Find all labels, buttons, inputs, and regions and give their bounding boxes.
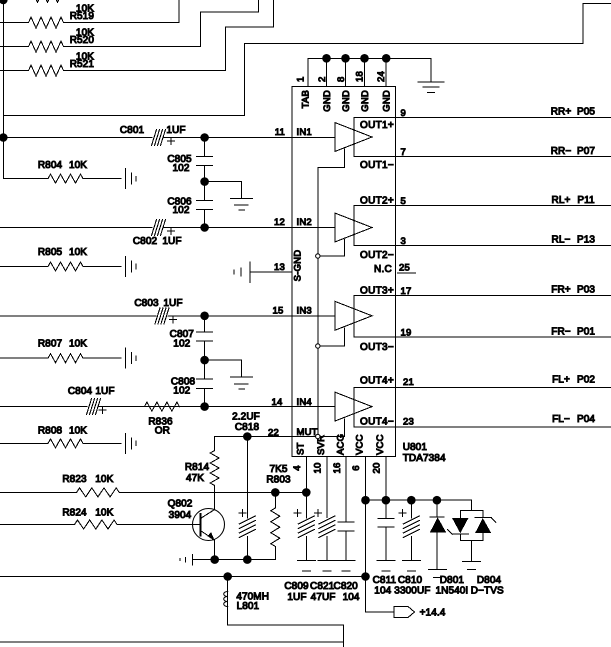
svg-text:L801: L801 <box>237 601 260 612</box>
output box ch1 <box>354 117 396 156</box>
junction dot C805/C806 mid <box>200 177 209 186</box>
pin VCC stub (6) <box>365 456 367 612</box>
svg-text:R814: R814 <box>185 462 210 473</box>
inductor L801 470MH <box>224 577 344 647</box>
wire S-GND pin 13 <box>250 271 292 273</box>
junction dot R803 top <box>271 488 280 497</box>
svg-text:OUT1+: OUT1+ <box>360 120 394 131</box>
open circle node ch3 <box>316 344 320 348</box>
resistor R519 <box>0 0 179 28</box>
junction dot top-left <box>0 0 8 4</box>
ground (earth, left-facing) at Q802 emitter <box>180 554 193 565</box>
svg-text:D−TVS: D−TVS <box>471 585 504 596</box>
wire OUT4+ / pin 21 <box>396 386 611 388</box>
junction dot ST bottom <box>302 488 311 497</box>
svg-text:RR−: RR− <box>551 146 572 157</box>
wire IN4 line <box>0 406 335 408</box>
svg-text:OUT2+: OUT2+ <box>360 196 394 207</box>
svg-text:1UF: 1UF <box>162 236 181 247</box>
junction dot VCC20 <box>382 496 391 505</box>
svg-text:3904: 3904 <box>169 510 192 521</box>
ground (earth, down) for C805/C806 <box>230 199 252 211</box>
svg-text:FL+: FL+ <box>552 375 570 386</box>
internal bus wire <box>317 168 319 435</box>
svg-text:+14.4: +14.4 <box>420 608 446 619</box>
resistor R520 <box>0 0 258 52</box>
wire OUT2+ / pin 5 <box>396 205 611 207</box>
wire OUT2- / pin 3 <box>396 244 611 246</box>
junction dot D801 <box>433 496 442 505</box>
svg-text:23: 23 <box>403 417 414 428</box>
svg-text:102: 102 <box>173 385 190 396</box>
svg-text:4: 4 <box>292 465 303 470</box>
capacitor C818 (vertical, polarized) <box>239 441 255 560</box>
op-amp U801 body <box>292 87 395 457</box>
ground for C810 <box>402 561 420 571</box>
svg-text:2: 2 <box>317 77 328 82</box>
ground (earth, right-facing) for R805 <box>126 257 137 277</box>
svg-text:OUT4−: OUT4− <box>360 417 394 428</box>
wire OUT3- / pin 19 <box>396 336 611 338</box>
svg-text:ACG: ACG <box>335 434 346 455</box>
svg-text:7: 7 <box>401 147 406 158</box>
svg-text:10K: 10K <box>95 508 113 519</box>
junction dot IN3/C807 <box>200 312 209 321</box>
junction dot MUT/C818 <box>243 432 252 441</box>
junction dot C810 <box>407 496 416 505</box>
svg-text:OUT1−: OUT1− <box>360 160 394 171</box>
svg-text:RL+: RL+ <box>552 195 571 206</box>
op-amp triangle 4 <box>335 392 372 421</box>
pin VCC stub (20) <box>385 456 387 518</box>
svg-text:102: 102 <box>173 163 190 174</box>
svg-text:14: 14 <box>272 397 283 408</box>
diode D801 1N5401 <box>430 500 446 569</box>
svg-text:20: 20 <box>372 463 383 474</box>
svg-text:21: 21 <box>403 377 414 388</box>
wire MUT line <box>215 437 320 451</box>
output box ch4 <box>354 387 396 427</box>
svg-text:P01: P01 <box>577 326 595 337</box>
svg-text:10K: 10K <box>69 247 87 258</box>
resistor R836 <box>144 402 179 437</box>
svg-text:R805: R805 <box>38 247 63 258</box>
open circle node ch2/S-GND <box>316 254 320 258</box>
svg-text:C810: C810 <box>398 575 423 586</box>
resistor R521 <box>0 0 273 76</box>
svg-text:24: 24 <box>376 71 387 82</box>
svg-text:D804: D804 <box>477 575 502 586</box>
wire OUT3+ / pin 17 <box>396 294 611 296</box>
svg-text:104: 104 <box>343 592 360 603</box>
svg-text:VCC: VCC <box>355 434 366 455</box>
pin SVR stub <box>326 456 328 517</box>
svg-text:104: 104 <box>374 585 391 596</box>
svg-text:IN2: IN2 <box>297 217 312 228</box>
svg-text:10: 10 <box>313 463 324 474</box>
svg-text:RR+: RR+ <box>551 107 572 118</box>
feedback wire ch2 <box>320 240 344 257</box>
svg-text:VCC: VCC <box>375 434 386 455</box>
svg-text:C801: C801 <box>120 125 145 136</box>
svg-text:GND: GND <box>382 90 393 112</box>
ground for D804 <box>463 562 481 570</box>
resistor R807 <box>0 338 121 362</box>
capacitor C820 104 (on ACG pin) <box>338 522 354 560</box>
svg-text:11: 11 <box>275 127 285 138</box>
wire mid to ground <box>205 182 242 199</box>
capacitor C809 1UF (on ST pin) <box>294 492 314 560</box>
svg-text:15: 15 <box>273 306 284 317</box>
ground for C820 <box>337 561 355 571</box>
svg-text:102: 102 <box>173 339 190 350</box>
resistor R823 10K <box>0 474 306 497</box>
svg-text:P05: P05 <box>577 107 595 118</box>
output box ch3 <box>354 295 396 337</box>
resistor R803 7K5 (vertical) <box>266 464 291 560</box>
svg-text:IN3: IN3 <box>297 306 312 317</box>
feedback wire ch3 <box>320 328 344 346</box>
op-amp triangle 2 <box>335 213 372 242</box>
op-amp triangle 1 <box>335 123 372 152</box>
svg-text:D801: D801 <box>440 575 465 586</box>
svg-text:C820: C820 <box>334 581 359 592</box>
junction dot C818 bottom <box>243 555 252 564</box>
svg-text:1UF: 1UF <box>287 592 306 603</box>
svg-text:7K5: 7K5 <box>269 464 287 475</box>
open circle node MUT <box>316 434 320 438</box>
svg-text:RL−: RL− <box>552 235 571 246</box>
svg-text:1UF: 1UF <box>163 298 182 309</box>
resistor R805 <box>0 247 121 271</box>
svg-text:TDA7384: TDA7384 <box>403 453 446 464</box>
svg-text:13: 13 <box>274 262 285 273</box>
wire: bus to top-right staircase <box>3 4 611 116</box>
svg-text:IN4: IN4 <box>297 397 312 408</box>
wire OUT1+ / pin 9 <box>396 116 611 118</box>
svg-text:18: 18 <box>355 71 366 82</box>
svg-text:1N540I: 1N540I <box>435 585 468 596</box>
svg-text:GND: GND <box>341 90 352 112</box>
svg-text:U801: U801 <box>403 442 428 453</box>
svg-text:47K: 47K <box>186 473 204 484</box>
svg-text:FR−: FR− <box>551 326 571 337</box>
svg-text:P02: P02 <box>577 375 595 386</box>
svg-text:C811: C811 <box>373 575 397 586</box>
power flag +14.4 <box>366 607 446 619</box>
wire VCC bus <box>366 500 472 510</box>
ground for D801 <box>428 570 446 578</box>
op-amp triangle 3 <box>335 301 372 330</box>
wire mid to ground <box>205 360 242 377</box>
junction dot IN2/C806 <box>200 223 209 232</box>
svg-text:FL−: FL− <box>552 414 570 425</box>
pin ACG stub <box>345 456 347 522</box>
capacitor C803 1UF <box>134 298 182 324</box>
capacitor C808 102 <box>171 364 213 406</box>
svg-text:C803: C803 <box>134 298 159 309</box>
svg-text:9: 9 <box>401 108 406 119</box>
node TOPBUS: vertical bus at left <box>2 0 4 179</box>
svg-text:C804: C804 <box>68 386 93 397</box>
capacitor C805 102 <box>167 142 212 178</box>
svg-text:OR: OR <box>155 426 170 437</box>
svg-text:R519: R519 <box>70 11 95 22</box>
svg-text:C821: C821 <box>310 581 335 592</box>
wire OUT1- / pin 7 <box>396 156 611 158</box>
svg-text:2.2UF: 2.2UF <box>232 412 260 423</box>
junction dot VCC6 <box>361 496 370 505</box>
ground for C821 <box>318 561 336 571</box>
capacitor C804 1UF <box>68 386 115 415</box>
svg-text:ST: ST <box>296 442 307 455</box>
svg-text:47UF: 47UF <box>311 592 336 603</box>
capacitor C811 104 (on VCC20) <box>378 518 394 560</box>
resistor R824 10K <box>0 508 200 529</box>
svg-text:S-GND: S-GND <box>293 250 304 282</box>
junction dot IN1/C805 <box>200 133 209 142</box>
resistor R518 (partial, top edge) <box>3 0 179 3</box>
junction dot pin18 <box>360 54 369 63</box>
svg-text:25: 25 <box>399 263 410 274</box>
svg-text:17: 17 <box>401 286 412 297</box>
svg-text:16: 16 <box>332 463 343 474</box>
resistor R808 <box>0 425 121 448</box>
svg-text:FR+: FR+ <box>551 285 571 296</box>
ground (earth, right-facing) for R807 <box>126 348 137 368</box>
svg-text:C809: C809 <box>284 581 309 592</box>
svg-text:OUT3−: OUT3− <box>360 342 394 353</box>
svg-text:P07: P07 <box>577 146 595 157</box>
svg-text:P03: P03 <box>577 285 595 296</box>
svg-text:R520: R520 <box>70 35 95 46</box>
svg-text:OUT3+: OUT3+ <box>360 285 394 296</box>
feedback wire ch4 <box>320 419 344 437</box>
svg-text:1UF: 1UF <box>166 125 185 136</box>
junction dot bus/IN1 <box>0 133 8 142</box>
wire emitter ground rail <box>193 559 276 561</box>
capacitor C810 3300UF <box>399 500 419 560</box>
svg-text:R824: R824 <box>62 508 87 519</box>
svg-text:12: 12 <box>274 217 285 228</box>
capacitor C821 47UF (on SVR pin) <box>315 510 335 561</box>
svg-text:OUT2−: OUT2− <box>360 250 394 261</box>
pin 18 GND wire <box>364 58 366 86</box>
svg-text:1UF: 1UF <box>95 386 114 397</box>
wire GND bus top <box>308 58 431 86</box>
ground (earth, left-facing) for S-GND pin 13 <box>234 262 250 283</box>
svg-text:R803: R803 <box>266 474 291 485</box>
transistor Q802 3904 <box>168 492 225 559</box>
svg-text:10K: 10K <box>69 160 87 171</box>
svg-text:8: 8 <box>336 77 347 82</box>
output box ch2 <box>354 206 396 246</box>
resistor R804 <box>3 160 121 183</box>
svg-text:OUT4+: OUT4+ <box>360 376 394 387</box>
svg-text:TAB: TAB <box>301 90 312 108</box>
svg-text:P04: P04 <box>577 414 595 425</box>
junction dot bus/L801 <box>223 572 232 581</box>
wire bottom bus to VCC <box>0 576 366 578</box>
pin 2 GND wire <box>326 58 328 86</box>
ground (earth, down) for C807/C808 <box>230 377 252 389</box>
wire bottom edge <box>0 641 343 643</box>
diode D804 D-TVS <box>448 510 496 561</box>
svg-text:Q802: Q802 <box>168 498 193 509</box>
svg-text:6: 6 <box>351 465 362 470</box>
svg-text:10K: 10K <box>69 338 87 349</box>
svg-text:R521: R521 <box>70 59 95 70</box>
ground for C811 <box>377 561 395 571</box>
svg-text:C802: C802 <box>133 236 158 247</box>
pin ST stub <box>305 456 307 492</box>
feedback wire ch1 <box>318 149 345 168</box>
junction dot bus/VCC <box>361 572 370 581</box>
pin 24 GND wire <box>385 58 387 86</box>
junction dot C807/C808 mid <box>200 356 209 365</box>
svg-text:GND: GND <box>360 90 371 112</box>
svg-text:P11: P11 <box>577 195 595 206</box>
resistor R814 47K (vertical) <box>185 451 219 493</box>
svg-text:R808: R808 <box>38 425 63 436</box>
capacitor C802 1UF <box>133 220 182 248</box>
ground for C809 <box>297 561 315 571</box>
svg-text:P13: P13 <box>577 235 595 246</box>
capacitor C807 102 <box>170 320 213 356</box>
ground (earth, right-facing) for R808 <box>126 433 137 453</box>
svg-text:10K: 10K <box>95 474 113 485</box>
junction dot pin2 <box>322 54 331 63</box>
svg-text:3300UF: 3300UF <box>394 585 430 596</box>
capacitor C806 102 <box>167 186 212 228</box>
junction dot pin24 <box>382 54 391 63</box>
svg-text:N.C: N.C <box>374 264 392 275</box>
svg-text:C818: C818 <box>235 422 260 433</box>
capacitor C801 1UF <box>120 125 186 145</box>
wire IN2 line <box>0 227 335 229</box>
svg-text:3: 3 <box>401 236 406 247</box>
svg-text:102: 102 <box>173 205 190 216</box>
junction dot pin8 <box>341 54 350 63</box>
svg-text:R823: R823 <box>62 474 87 485</box>
ground (earth) top-right <box>418 82 444 93</box>
wire IN3 line <box>0 315 335 317</box>
junction dot emitter <box>210 555 219 564</box>
wire IN1 line <box>0 137 335 139</box>
svg-text:R804: R804 <box>38 160 63 171</box>
junction dot IN4/C808 <box>200 402 209 411</box>
svg-text:IN1: IN1 <box>297 127 312 138</box>
svg-text:5: 5 <box>401 196 406 207</box>
ground (earth, right-facing) for R804 <box>126 169 137 189</box>
svg-text:1: 1 <box>296 77 307 82</box>
svg-text:19: 19 <box>401 328 412 339</box>
svg-text:R807: R807 <box>38 338 63 349</box>
svg-text:GND: GND <box>322 90 333 112</box>
svg-text:10K: 10K <box>69 425 87 436</box>
wire OUT4- / pin 23 <box>396 426 611 428</box>
pin 8 GND wire <box>345 58 347 86</box>
